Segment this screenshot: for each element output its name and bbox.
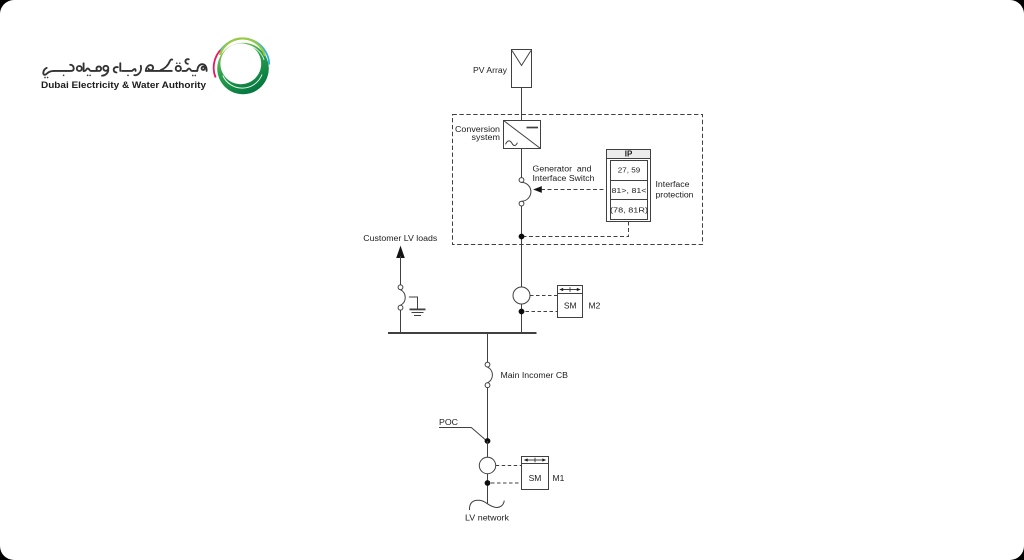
- svg-text:POC: POC: [439, 418, 458, 427]
- customer loads switch: [398, 285, 405, 310]
- svg-text:Customer LV loads: Customer LV loads: [363, 234, 437, 243]
- svg-text:system: system: [472, 133, 501, 142]
- busbar: [388, 332, 537, 334]
- svg-text:Dubai Electricity & Water Auth: Dubai Electricity & Water Authority: [41, 80, 206, 90]
- PV array symbol: [512, 50, 532, 88]
- ground: [410, 309, 426, 315]
- svg-text:IP: IP: [625, 150, 633, 159]
- node below M2 circle: [519, 309, 525, 315]
- node at dashed box bottom: [519, 234, 525, 240]
- dashed link M2 circle to SM box: [530, 295, 558, 297]
- POC leader line: [439, 428, 486, 441]
- main incomer CB switch: [485, 362, 492, 387]
- wire switch to meter M2: [521, 206, 523, 287]
- svg-text:Interface Switch: Interface Switch: [533, 174, 595, 183]
- generator and interface switch: [519, 178, 531, 206]
- wire loads switch to busbar: [400, 310, 402, 332]
- svg-text:PV Array: PV Array: [473, 66, 507, 75]
- conversion system U1 (inverter): [504, 121, 541, 149]
- svg-text:(78, 81R): (78, 81R): [610, 205, 649, 214]
- svg-text:SM: SM: [529, 473, 542, 483]
- POC node: [485, 438, 491, 444]
- SM M2 arrowheads: [559, 288, 563, 291]
- DEWA logo Arabic text: [43, 59, 206, 78]
- svg-text:M2: M2: [589, 301, 601, 311]
- wire PV array to conversion system: [521, 88, 523, 121]
- svg-text:LV network: LV network: [465, 512, 510, 522]
- wire M1 to LV network: [487, 474, 489, 504]
- svg-text:protection: protection: [656, 191, 694, 200]
- wire busbar to main incomer CB: [487, 334, 489, 362]
- earthing tap: [409, 297, 418, 309]
- svg-text:81>, 81<: 81>, 81<: [612, 186, 648, 195]
- meter circle M1: [479, 457, 495, 473]
- dashed line IP box to switch with arrow: [541, 189, 607, 191]
- dashed interface zone box: [453, 115, 703, 245]
- svg-text:Generator and: Generator and: [533, 164, 592, 173]
- SM M1 arrowheads: [524, 458, 528, 461]
- smart meter SM box M2: [558, 286, 583, 318]
- wire conversion system to switch: [521, 149, 523, 178]
- customer loads arrow: [396, 246, 405, 258]
- smart meter SM box M1: [522, 457, 549, 490]
- wire POC to meter M1: [487, 441, 489, 458]
- dashed link node to SM box: [526, 311, 558, 313]
- node below M1 circle: [485, 480, 491, 486]
- dashed link M1 circle to SM box: [496, 465, 522, 467]
- svg-text:SM: SM: [564, 301, 577, 311]
- svg-text:M1: M1: [553, 473, 565, 483]
- wire CB to POC node: [487, 388, 489, 440]
- svg-text:27, 59: 27, 59: [618, 166, 641, 175]
- meter circle M2: [513, 287, 530, 304]
- wire M2 to busbar: [521, 304, 523, 333]
- dashed connector IP box to node: [524, 222, 629, 237]
- interface protection IP box: [607, 150, 651, 222]
- svg-text:Main Incomer CB: Main Incomer CB: [501, 371, 569, 380]
- LV network wave: [469, 500, 504, 510]
- DEWA logo swirl: [214, 38, 270, 94]
- svg-text:Interface: Interface: [656, 180, 691, 189]
- dashed link node to SM box M1: [491, 482, 522, 484]
